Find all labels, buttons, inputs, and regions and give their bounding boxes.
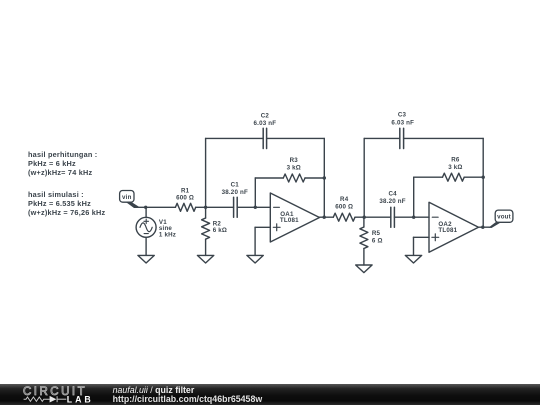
svg-text:1 kHz: 1 kHz	[159, 231, 176, 238]
wire R4 to C4	[355, 216, 391, 218]
junction OA1 output node	[323, 216, 326, 219]
value label R1 600 Ω	[176, 187, 194, 201]
junction OA2 output node	[481, 226, 484, 229]
svg-text:R1: R1	[181, 187, 190, 194]
svg-text:6.03 nF: 6.03 nF	[391, 119, 414, 126]
footer title	[113, 385, 195, 395]
svg-text:C2: C2	[261, 113, 270, 120]
junction R3/C2 rail	[323, 176, 326, 179]
svg-text:R3: R3	[290, 157, 299, 164]
CircuitLab logo	[22, 385, 102, 405]
svg-text:3 kΩ: 3 kΩ	[287, 164, 301, 171]
voltage source V1	[136, 207, 156, 255]
capacitor C3	[400, 128, 404, 148]
junction node B (R4/R5/C3/C4)	[363, 216, 366, 219]
svg-text:vin: vin	[122, 194, 132, 201]
svg-text:38.20 nF: 38.20 nF	[379, 198, 405, 205]
svg-text:6.03 nF: 6.03 nF	[254, 120, 277, 127]
annotation: hasil simulasi	[28, 190, 105, 217]
op-amp OA1	[270, 193, 319, 242]
ground (R2)	[197, 255, 213, 263]
value label C3 6.03 nF	[391, 112, 414, 127]
value label R4 600 Ω	[335, 196, 353, 210]
junction R6/C3 rail	[482, 176, 485, 179]
wire OA2 + input to ground	[414, 237, 430, 255]
svg-text:3 kΩ: 3 kΩ	[448, 164, 462, 171]
svg-text:C3: C3	[398, 112, 407, 119]
svg-text:R5: R5	[372, 230, 381, 237]
capacitor C2	[263, 128, 266, 148]
value label R3 3 kΩ	[287, 157, 301, 171]
svg-text:R6: R6	[451, 156, 460, 163]
value label R5 6 Ω	[372, 230, 383, 244]
value label C1 38.20 nF	[222, 182, 248, 197]
value label OA2 TL081	[438, 221, 457, 234]
wire OA2 output	[479, 226, 491, 228]
junction node A1 (V1 tap)	[144, 206, 147, 209]
svg-text:R4: R4	[340, 196, 349, 203]
svg-text:6 Ω: 6 Ω	[372, 238, 383, 245]
annotation: hasil perhitungan	[28, 150, 97, 177]
net flag vin	[120, 191, 140, 209]
value label R6 3 kΩ	[448, 156, 462, 171]
svg-text:vout: vout	[497, 214, 511, 221]
svg-text:TL081: TL081	[438, 227, 457, 234]
svg-text:LAB: LAB	[67, 395, 94, 405]
ground (OA2 +)	[405, 255, 421, 263]
capacitor C4	[391, 207, 395, 227]
capacitor C1	[234, 197, 238, 217]
wire OA1 output	[320, 216, 334, 218]
junction node B2 (C4/R6/OA2-)	[412, 216, 415, 219]
capacitor C3 feedback loop wires	[364, 138, 483, 227]
footer bar	[0, 384, 540, 405]
footer url	[113, 394, 263, 404]
svg-text:600 Ω: 600 Ω	[176, 195, 194, 202]
wire C1 to OA1 inverting input	[237, 206, 270, 208]
svg-text:38.20 nF: 38.20 nF	[222, 189, 248, 196]
capacitor C2 feedback loop wires	[206, 138, 325, 217]
value label OA1 TL081	[280, 211, 299, 224]
resistor R4	[333, 213, 355, 221]
junction node A (R1/R2/C2/C1)	[204, 206, 207, 209]
ground (V1)	[138, 255, 154, 263]
value label C4 38.20 nF	[379, 191, 405, 206]
wire R1 to C1	[196, 206, 234, 208]
ground (R5)	[356, 265, 372, 273]
net flag vout	[489, 210, 513, 228]
junction node B1 (C1/R3/OA1-)	[254, 206, 257, 209]
svg-text:600 Ω: 600 Ω	[335, 203, 353, 210]
ground (OA1 +)	[247, 255, 263, 263]
op-amp OA2	[429, 202, 479, 252]
resistor R2	[202, 207, 210, 255]
wire vin to R1	[137, 206, 175, 208]
svg-text:6 kΩ: 6 kΩ	[213, 227, 227, 234]
svg-text:C4: C4	[388, 191, 397, 198]
svg-text:TL081: TL081	[280, 217, 299, 224]
resistor R3 feedback	[255, 174, 324, 207]
wire OA1 + input to ground	[255, 227, 270, 255]
svg-text:C1: C1	[231, 182, 240, 189]
resistor R5	[360, 217, 368, 265]
resistor R1	[175, 203, 195, 211]
wire C4 to OA2 inverting input	[394, 216, 429, 218]
value label V1 sine 1 kHz	[159, 219, 176, 239]
resistor R6 feedback	[414, 173, 484, 217]
value label C2 6.03 nF	[254, 113, 277, 127]
value label R2 6 kΩ	[213, 221, 227, 234]
